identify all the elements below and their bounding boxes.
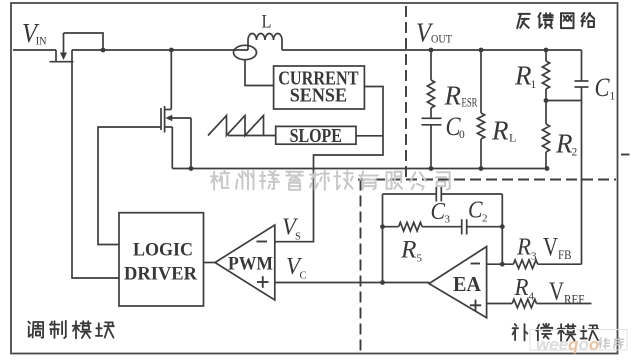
svg-text:S: S bbox=[295, 232, 301, 243]
label fankui-wangluo (feedback network) bbox=[517, 14, 530, 28]
inductor L bbox=[247, 40, 249, 50]
resistor R_ESR bbox=[430, 50, 432, 80]
resistor RL bbox=[480, 50, 482, 113]
watermark weiku bbox=[599, 338, 609, 348]
capacitor C3 branch bbox=[383, 193, 437, 195]
svg-text:R: R bbox=[400, 237, 417, 264]
svg-text:2: 2 bbox=[572, 147, 578, 159]
svg-text:0: 0 bbox=[459, 129, 465, 141]
stray mark right margin bbox=[621, 154, 630, 156]
capacitor C0 bbox=[422, 117, 442, 119]
svg-text:C: C bbox=[595, 73, 611, 102]
svg-text:5: 5 bbox=[417, 253, 423, 265]
op-amp PWM comparator bbox=[215, 225, 275, 300]
block LOGIC DRIVER bbox=[119, 213, 204, 306]
resistor R4 bbox=[512, 299, 536, 308]
svg-text:R: R bbox=[514, 61, 532, 91]
svg-text:R: R bbox=[491, 116, 509, 146]
svg-text:FB: FB bbox=[558, 248, 572, 262]
svg-text:R: R bbox=[516, 234, 531, 260]
wire EA minus input bbox=[487, 263, 514, 265]
svg-text:SENSE: SENSE bbox=[290, 86, 347, 107]
svg-text:R: R bbox=[555, 129, 573, 159]
svg-text:C: C bbox=[300, 271, 307, 282]
svg-text:EA: EA bbox=[453, 272, 482, 296]
svg-text:R: R bbox=[514, 275, 529, 301]
wire gate-drain loop of Q1 bbox=[64, 33, 104, 50]
wire slope out bbox=[356, 135, 383, 137]
svg-text:REF: REF bbox=[564, 292, 585, 306]
resistor R1 bbox=[545, 50, 547, 61]
svg-text:3: 3 bbox=[531, 251, 537, 263]
wire EA output bbox=[429, 283, 430, 284]
svg-text:3: 3 bbox=[445, 214, 451, 226]
wire Q2 gate to logic driver bbox=[98, 127, 161, 245]
svg-text:R: R bbox=[444, 80, 462, 110]
svg-text:4: 4 bbox=[529, 291, 535, 303]
svg-text:1: 1 bbox=[531, 79, 537, 91]
wire rail after inductor to Vout bbox=[282, 49, 582, 51]
svg-text:DRIVER: DRIVER bbox=[124, 265, 198, 285]
junction Q2 drain on rail bbox=[169, 48, 174, 53]
svg-text:OUT: OUT bbox=[431, 32, 453, 46]
capacitor C1 bbox=[581, 50, 583, 81]
svg-text:SLOPE: SLOPE bbox=[290, 126, 342, 147]
wire sawtooth to slope bbox=[228, 135, 276, 137]
svg-text:LOGIC: LOGIC bbox=[133, 240, 193, 260]
resistor R2 bbox=[542, 124, 549, 152]
junction Q2 source/body bbox=[189, 166, 194, 171]
block CURRENT SENSE bbox=[274, 66, 365, 109]
junction loop/rail bbox=[101, 48, 106, 53]
op-amp EA error amplifier bbox=[429, 247, 487, 318]
svg-text:L: L bbox=[262, 12, 272, 33]
wire top rail V_IN to inductor bbox=[72, 49, 248, 51]
svg-text:L: L bbox=[509, 131, 516, 145]
watermark weeqoo box bbox=[530, 330, 627, 351]
wire current sense out bbox=[275, 87, 383, 242]
wire VFB riser bbox=[581, 87, 583, 264]
svg-text:weeqoo: weeqoo bbox=[536, 335, 599, 354]
junctions on Vout rail bbox=[429, 48, 434, 53]
wire Q1 to logic driver bbox=[72, 62, 119, 278]
svg-text:V: V bbox=[549, 277, 564, 306]
transistor Q2 (switch MOSFET) bbox=[160, 108, 162, 130]
wire comp right node vertical bbox=[501, 194, 503, 264]
partition dashed lines bbox=[405, 6, 407, 180]
block SLOPE bbox=[276, 126, 356, 144]
svg-text:PWM: PWM bbox=[228, 255, 273, 275]
label tiaozhi-mokuai (modulation module) bbox=[28, 322, 43, 338]
wire R4 to VREF terminal bbox=[537, 303, 592, 305]
sawtooth waveform bbox=[208, 116, 264, 136]
svg-text:1: 1 bbox=[610, 91, 616, 103]
transistor Q1 (input pass device) bbox=[55, 50, 57, 61]
svg-text:V: V bbox=[543, 232, 558, 261]
resistor R3 bbox=[513, 260, 537, 269]
wire sense to current-sense block bbox=[245, 60, 274, 86]
wire R3 to VFB riser bbox=[538, 263, 582, 265]
svg-text:ESR: ESR bbox=[462, 94, 478, 109]
wire PWM out to logic driver bbox=[204, 262, 216, 264]
wire comp left node vertical bbox=[382, 194, 384, 283]
current sense pickup loop bbox=[234, 45, 257, 59]
wire EA plus input bbox=[487, 303, 513, 305]
junction R1/R2 midpoint bbox=[544, 98, 549, 103]
svg-text:IN: IN bbox=[36, 36, 47, 48]
svg-text:2: 2 bbox=[482, 212, 488, 224]
label buchang-mokuai (compensation module) bbox=[513, 324, 528, 340]
wire divider midpoint to C1 bottom / VFB riser bbox=[546, 100, 582, 102]
wire ground rail bbox=[172, 168, 547, 170]
wire VIN lead bbox=[13, 49, 56, 51]
watermark company name bbox=[211, 171, 229, 190]
wire VC line : EA out to PWM + bbox=[275, 282, 429, 284]
resistor R5 / capacitor C2 branch bbox=[383, 226, 399, 228]
